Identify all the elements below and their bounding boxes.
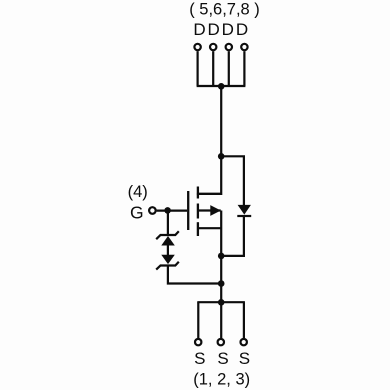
svg-text:(1, 2, 3): (1, 2, 3) — [193, 370, 250, 388]
wire gate junction down to zener Z1 — [167, 211, 169, 235]
svg-text:(4): (4) — [128, 183, 148, 201]
wire zener return to source — [168, 266, 221, 284]
wire mosfet drain lead — [198, 193, 221, 195]
wire pin5 to drain bus — [197, 51, 199, 86]
svg-text:S: S — [194, 349, 205, 368]
terminal D pin 8 — [241, 44, 247, 50]
mosfet Q1 channel segment bottom — [197, 222, 199, 236]
wire pin7 to drain bus — [228, 51, 230, 86]
wire drain vertical to MOSFET — [197, 86, 221, 194]
wire pin8 to drain bus — [243, 51, 245, 86]
node drain bus junction — [218, 83, 225, 90]
zener Z1 cathode bar with bent ends — [156, 231, 179, 239]
terminal S pin 3 — [241, 339, 247, 345]
svg-text:S: S — [217, 349, 228, 368]
wire source vertical — [220, 211, 222, 303]
wire diode branch top — [221, 156, 244, 205]
wire between zeners — [167, 245, 169, 255]
zener Z2 triangle (pointing down) — [161, 255, 175, 264]
svg-text:( 5,6,7,8 ): ( 5,6,7,8 ) — [189, 1, 260, 19]
wire diode branch bottom — [221, 216, 244, 256]
terminal G pin 4 — [149, 207, 156, 214]
wire source bus horizontal — [197, 301, 245, 303]
node source bus junction — [218, 299, 225, 306]
op mosfet Q1 gate bar — [187, 191, 189, 230]
wire source stub middle — [220, 302, 222, 338]
mosfet Q1 channel segment middle — [197, 204, 199, 219]
terminal S pin 2 — [218, 339, 224, 345]
svg-text:G: G — [130, 203, 144, 223]
mosfet Q1 channel segment top — [197, 187, 199, 199]
mosfet Q1 body arrow — [210, 205, 221, 216]
svg-text:S: S — [239, 349, 250, 368]
node diode branch junction — [218, 153, 225, 160]
body diode D1 triangle — [238, 205, 251, 215]
zener Z1 triangle (pointing up) — [161, 236, 175, 246]
wire pin6 to drain bus — [212, 51, 214, 86]
wire mosfet source lead — [198, 227, 221, 229]
body diode D1 cathode bar — [237, 215, 251, 217]
terminal D pin 5 — [194, 44, 200, 50]
wire gate lead — [157, 210, 187, 212]
wire source stub right — [243, 302, 245, 338]
node gate-zener junction — [164, 207, 171, 214]
node source-diode junction — [218, 253, 225, 260]
terminal D pin 6 — [210, 44, 216, 50]
terminal D pin 7 — [226, 44, 232, 50]
svg-text:DDDD: DDDD — [193, 20, 250, 39]
wire mosfet body lead — [198, 209, 221, 211]
wire drain bus horizontal — [197, 85, 246, 87]
terminal S pin 1 — [195, 339, 201, 345]
wire source stub left — [197, 302, 199, 338]
zener Z2 cathode bar with bent ends — [156, 262, 179, 270]
node source-zener junction — [218, 280, 225, 287]
